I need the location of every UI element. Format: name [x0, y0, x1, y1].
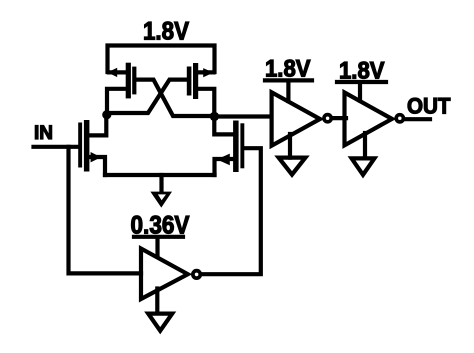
M2 channel bar	[193, 63, 198, 99]
transistor M4 (right input NMOS)	[214, 117, 244, 176]
wire supply stub	[286, 82, 290, 101]
M1 channel bar	[126, 63, 131, 99]
wire source lead with arrow	[198, 70, 214, 74]
wire common source rail	[105, 173, 215, 177]
wire supply stub	[358, 84, 362, 101]
svg-text:OUT: OUT	[407, 94, 451, 119]
M3 gate bar	[78, 123, 82, 168]
inverter U2 (first output buffer)	[265, 80, 331, 145]
svg-text:IN: IN	[34, 122, 53, 144]
wire feedback from IN node down to inverter input	[69, 147, 142, 274]
M3 channel bar	[84, 120, 90, 172]
wire top 1.8V supply rail	[108, 46, 215, 73]
ground (tail node, middle)	[150, 175, 172, 208]
wire source lead with arrow	[109, 70, 126, 74]
wire right node to U2 input	[214, 114, 272, 118]
wire drain lead	[107, 89, 126, 113]
M4 channel bar	[233, 121, 239, 173]
wire source lead with arrow	[215, 159, 233, 175]
wire supply rail	[265, 78, 312, 82]
inverter U1 (0.36V feedback inverter)	[134, 237, 200, 299]
M1 gate bar	[132, 67, 136, 95]
transistor M3 (left input NMOS)	[78, 114, 106, 175]
wire cross-couple: M2 gate to left node	[107, 80, 187, 113]
wire supply stub	[155, 239, 159, 257]
M2 gate bar	[187, 67, 192, 96]
wire supply rail under 0.36V	[134, 235, 183, 239]
wire drain lead	[214, 117, 234, 135]
output bubble	[193, 271, 200, 278]
wire supply rail	[337, 80, 386, 84]
wire U1 output to M4 gate	[202, 148, 261, 274]
output bubble	[324, 115, 331, 122]
node right output (junction dot)	[210, 112, 219, 121]
wire IN to M3 gate	[34, 145, 79, 149]
ground (U2)	[279, 134, 306, 175]
ground (U3)	[352, 133, 375, 175]
wire source lead with arrow	[90, 157, 105, 175]
wire drain lead	[88, 114, 106, 135]
wire cross-couple: M1 gate to right node	[136, 80, 214, 116]
inverter U3 (second output buffer)	[337, 82, 403, 145]
transistor M2 (right cross-coupled PMOS)	[187, 63, 215, 116]
ground (U1)	[148, 289, 172, 331]
output bubble	[396, 115, 403, 122]
node left output (junction dot)	[102, 110, 111, 119]
wire U2 output to U3 input	[332, 116, 346, 120]
wire drain lead	[198, 89, 215, 116]
transistor M1 (left cross-coupled PMOS)	[107, 63, 136, 113]
M4 gate bar	[240, 123, 244, 168]
wire U3 output to OUT	[405, 117, 430, 121]
svg-text:1.8V: 1.8V	[143, 18, 189, 46]
